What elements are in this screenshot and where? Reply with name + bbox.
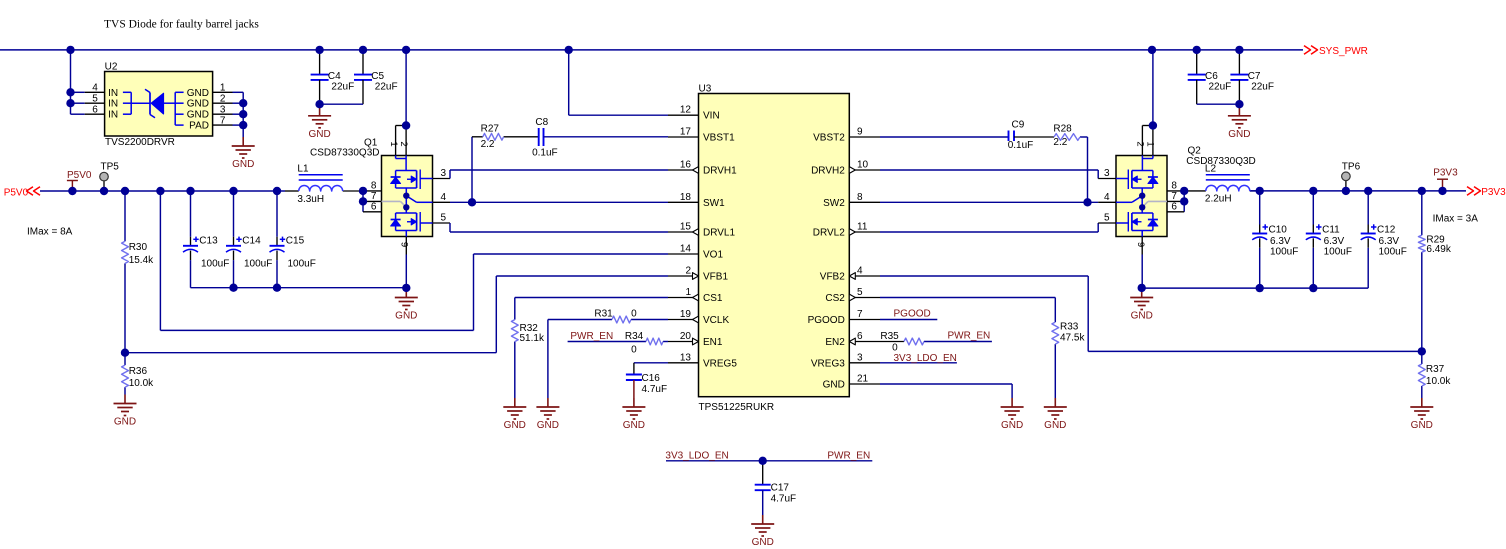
svg-text:CS2: CS2 (825, 293, 845, 304)
svg-text:R28: R28 (1053, 124, 1072, 135)
svg-text:P5V0: P5V0 (4, 187, 29, 198)
svg-text:GND: GND (187, 99, 209, 110)
svg-text:19: 19 (680, 309, 692, 320)
svg-text:3.3uH: 3.3uH (297, 194, 324, 205)
svg-text:100uF: 100uF (288, 258, 316, 269)
svg-text:GND: GND (187, 110, 209, 121)
svg-text:100uF: 100uF (1270, 247, 1298, 258)
svg-text:CS1: CS1 (703, 293, 723, 304)
svg-text:3V3_LDO_EN: 3V3_LDO_EN (665, 450, 728, 461)
svg-text:8: 8 (371, 180, 377, 191)
svg-text:9: 9 (399, 242, 410, 247)
svg-text:14: 14 (680, 244, 692, 255)
svg-text:6.49k: 6.49k (1426, 244, 1451, 255)
svg-text:GND: GND (504, 420, 526, 431)
svg-text:1: 1 (1145, 141, 1156, 146)
svg-text:20: 20 (680, 331, 692, 342)
svg-text:DRVH1: DRVH1 (703, 166, 737, 177)
svg-text:15: 15 (680, 222, 692, 233)
svg-text:15.4k: 15.4k (129, 255, 154, 266)
svg-text:GND: GND (623, 420, 645, 431)
svg-text:IN: IN (108, 88, 118, 99)
svg-text:100uF: 100uF (201, 258, 229, 269)
svg-text:2: 2 (220, 93, 226, 104)
svg-text:GND: GND (1044, 420, 1066, 431)
svg-text:R31: R31 (594, 309, 613, 320)
svg-text:GND: GND (823, 380, 845, 391)
svg-text:VIN: VIN (703, 111, 720, 122)
svg-text:U2: U2 (105, 61, 118, 72)
svg-text:22uF: 22uF (1251, 82, 1274, 93)
svg-text:IMax = 8A: IMax = 8A (27, 226, 73, 237)
svg-text:8: 8 (857, 192, 863, 203)
svg-text:6.3V: 6.3V (1270, 236, 1291, 247)
svg-text:GND: GND (752, 537, 774, 548)
svg-text:7: 7 (371, 191, 377, 202)
svg-text:3: 3 (857, 352, 863, 363)
svg-text:5: 5 (1104, 213, 1110, 224)
svg-text:PWR_EN: PWR_EN (827, 450, 870, 461)
svg-text:2.2: 2.2 (1053, 137, 1067, 148)
svg-text:TVS2200DRVR: TVS2200DRVR (105, 137, 175, 148)
svg-text:11: 11 (857, 222, 868, 233)
svg-text:R32: R32 (520, 323, 539, 334)
svg-text:PWR_EN: PWR_EN (948, 331, 991, 342)
svg-text:2: 2 (685, 266, 691, 277)
svg-text:0: 0 (892, 343, 898, 354)
svg-text:100uF: 100uF (1324, 247, 1352, 258)
svg-text:0: 0 (631, 344, 637, 355)
svg-text:5: 5 (857, 287, 863, 298)
svg-text:47.5k: 47.5k (1060, 333, 1085, 344)
svg-text:5: 5 (92, 93, 98, 104)
svg-text:5: 5 (440, 213, 446, 224)
svg-text:2.2: 2.2 (481, 139, 495, 150)
svg-text:16: 16 (680, 160, 692, 171)
svg-text:3: 3 (1104, 168, 1110, 179)
svg-text:C16: C16 (642, 373, 661, 384)
svg-text:PGOOD: PGOOD (894, 309, 931, 320)
svg-text:C6: C6 (1205, 71, 1218, 82)
svg-text:1: 1 (388, 141, 399, 146)
svg-text:C17: C17 (771, 483, 790, 494)
svg-text:GND: GND (1131, 311, 1153, 322)
svg-text:U3: U3 (699, 84, 712, 95)
svg-text:3: 3 (440, 168, 446, 179)
svg-text:4: 4 (440, 192, 446, 203)
svg-text:TP5: TP5 (101, 162, 120, 173)
svg-text:GND: GND (1411, 420, 1433, 431)
svg-text:R37: R37 (1426, 364, 1445, 375)
svg-text:DRVL1: DRVL1 (703, 228, 735, 239)
svg-text:P3V3: P3V3 (1433, 168, 1458, 179)
svg-text:10.0k: 10.0k (129, 378, 154, 389)
svg-text:GND: GND (395, 311, 417, 322)
svg-text:1: 1 (685, 287, 691, 298)
svg-text:GND: GND (308, 129, 330, 140)
svg-text:C12: C12 (1377, 225, 1396, 236)
svg-text:GND: GND (1228, 129, 1250, 140)
svg-text:R34: R34 (625, 331, 644, 342)
svg-text:VREG5: VREG5 (703, 358, 737, 369)
svg-text:4.7uF: 4.7uF (642, 384, 668, 395)
svg-text:P5V0: P5V0 (67, 170, 92, 181)
svg-text:2.2uH: 2.2uH (1205, 194, 1232, 205)
svg-text:0: 0 (631, 309, 637, 320)
svg-text:P3V3: P3V3 (1481, 187, 1506, 198)
svg-text:TVS Diode for faulty barrel ja: TVS Diode for faulty barrel jacks (104, 19, 259, 31)
svg-text:GND: GND (114, 417, 136, 428)
svg-text:13: 13 (680, 352, 692, 363)
svg-text:6: 6 (857, 331, 863, 342)
svg-text:VO1: VO1 (703, 250, 723, 261)
svg-text:22uF: 22uF (331, 82, 354, 93)
svg-text:EN2: EN2 (825, 337, 845, 348)
svg-text:VBST1: VBST1 (703, 133, 735, 144)
svg-text:R36: R36 (129, 366, 148, 377)
svg-text:PGOOD: PGOOD (808, 315, 845, 326)
svg-text:18: 18 (680, 192, 692, 203)
svg-text:C4: C4 (328, 71, 341, 82)
svg-text:GND: GND (232, 159, 254, 170)
svg-text:C9: C9 (1012, 120, 1025, 131)
svg-text:SYS_PWR: SYS_PWR (1319, 46, 1368, 57)
svg-text:C8: C8 (535, 117, 548, 128)
svg-text:VBST2: VBST2 (813, 133, 845, 144)
svg-text:7: 7 (1171, 191, 1177, 202)
svg-text:TPS51225RUKR: TPS51225RUKR (699, 402, 775, 413)
svg-text:VCLK: VCLK (703, 315, 729, 326)
svg-text:7: 7 (220, 115, 226, 126)
svg-text:C10: C10 (1269, 225, 1288, 236)
svg-text:CSD87330Q3D: CSD87330Q3D (310, 148, 379, 159)
svg-text:R35: R35 (880, 331, 899, 342)
svg-text:R27: R27 (481, 124, 500, 135)
svg-text:100uF: 100uF (1379, 247, 1407, 258)
svg-text:PWR_EN: PWR_EN (570, 331, 613, 342)
svg-text:R30: R30 (129, 242, 148, 253)
svg-text:C5: C5 (371, 71, 384, 82)
svg-text:R33: R33 (1060, 322, 1079, 333)
svg-text:4: 4 (857, 266, 863, 277)
svg-text:EN1: EN1 (703, 337, 723, 348)
svg-text:4.7uF: 4.7uF (771, 494, 797, 505)
svg-text:VFB1: VFB1 (703, 272, 728, 283)
svg-text:DRVH2: DRVH2 (811, 166, 845, 177)
svg-text:17: 17 (680, 127, 692, 138)
svg-text:2: 2 (398, 141, 409, 146)
svg-text:C13: C13 (199, 235, 218, 246)
svg-text:VFB2: VFB2 (820, 272, 845, 283)
svg-text:CSD87330Q3D: CSD87330Q3D (1186, 156, 1255, 167)
svg-text:0.1uF: 0.1uF (1008, 140, 1034, 151)
svg-text:1: 1 (220, 83, 226, 94)
svg-text:51.1k: 51.1k (520, 333, 545, 344)
svg-text:10: 10 (857, 160, 869, 171)
svg-text:SW1: SW1 (703, 198, 725, 209)
svg-text:VREG3: VREG3 (811, 358, 845, 369)
svg-text:IN: IN (108, 110, 118, 121)
svg-text:TP6: TP6 (1342, 162, 1361, 173)
svg-text:9: 9 (1135, 242, 1146, 247)
svg-text:22uF: 22uF (375, 82, 398, 93)
svg-text:C11: C11 (1322, 225, 1340, 236)
svg-text:8: 8 (1171, 180, 1177, 191)
svg-text:6: 6 (1171, 201, 1177, 212)
svg-text:C7: C7 (1248, 71, 1261, 82)
svg-text:PAD: PAD (189, 121, 209, 132)
svg-text:GND: GND (537, 420, 559, 431)
svg-text:L1: L1 (297, 163, 309, 174)
svg-text:6.3V: 6.3V (1324, 236, 1345, 247)
svg-text:GND: GND (1001, 420, 1023, 431)
svg-text:0.1uF: 0.1uF (532, 148, 558, 159)
svg-text:Q2: Q2 (1188, 146, 1202, 157)
svg-text:6.3V: 6.3V (1379, 236, 1400, 247)
svg-text:IN: IN (108, 99, 118, 110)
svg-text:3: 3 (220, 104, 226, 115)
svg-text:10.0k: 10.0k (1426, 376, 1451, 387)
svg-text:21: 21 (857, 374, 869, 385)
svg-text:DRVL2: DRVL2 (813, 228, 845, 239)
svg-text:SW2: SW2 (823, 198, 845, 209)
svg-text:C15: C15 (286, 235, 305, 246)
svg-text:7: 7 (857, 309, 863, 320)
svg-text:4: 4 (1104, 192, 1110, 203)
svg-text:22uF: 22uF (1209, 82, 1232, 93)
svg-text:6: 6 (371, 201, 377, 212)
svg-text:GND: GND (187, 88, 209, 99)
svg-text:6: 6 (92, 104, 98, 115)
svg-text:12: 12 (680, 105, 692, 116)
svg-text:IMax = 3A: IMax = 3A (1433, 213, 1479, 224)
svg-text:L2: L2 (1205, 163, 1217, 174)
svg-text:2: 2 (1134, 141, 1145, 146)
svg-text:9: 9 (857, 127, 863, 138)
svg-text:4: 4 (92, 83, 98, 94)
svg-text:C14: C14 (242, 235, 261, 246)
svg-text:100uF: 100uF (244, 258, 272, 269)
svg-text:3V3_LDO_EN: 3V3_LDO_EN (894, 353, 957, 364)
